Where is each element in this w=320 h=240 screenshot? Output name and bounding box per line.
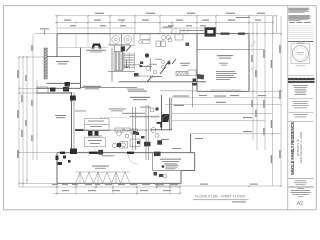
left closet box xyxy=(37,87,48,93)
dimension text blobs bottom xyxy=(52,184,258,192)
garage label xyxy=(217,55,233,56)
dark corner wall xyxy=(157,122,163,128)
mid-left double wall xyxy=(71,92,73,154)
fireplace xyxy=(205,27,216,36)
kitchen counter right fixtures xyxy=(139,41,142,44)
bottom dimension lines xyxy=(53,186,180,188)
closet box 2 xyxy=(85,138,106,147)
hall wall upper xyxy=(37,87,81,89)
signature segments row xyxy=(289,21,311,24)
foyer east wall xyxy=(191,82,193,107)
powder fixtures small xyxy=(168,62,171,65)
appliance circle right xyxy=(124,36,132,44)
firm address lines xyxy=(293,85,308,95)
garage top wall windows xyxy=(221,33,245,35)
garage door swing arcs xyxy=(249,41,256,75)
kitchen divider xyxy=(87,34,89,48)
door swing arcs xyxy=(64,28,177,153)
appliance circle left xyxy=(112,36,120,44)
svg-text:A2: A2 xyxy=(297,201,304,207)
separator above project title xyxy=(288,121,313,123)
dimension text blobs top xyxy=(64,13,265,27)
dimension text blobs right (rotated) xyxy=(251,45,280,163)
consultant text xyxy=(292,101,309,108)
wall line label xyxy=(127,89,144,90)
hall fixtures upper xyxy=(150,108,154,112)
entry door fixtures bottom left xyxy=(56,156,71,166)
garage bottom wall xyxy=(197,90,249,92)
master bottom wall xyxy=(181,170,195,172)
porch edge line xyxy=(160,90,197,92)
toilet center xyxy=(151,127,155,133)
closet box 1 xyxy=(85,119,109,131)
top dimension line 3 segments xyxy=(57,27,135,29)
family room bottom wall xyxy=(47,82,81,84)
mid horizontal wall xyxy=(119,81,206,83)
stair door blob xyxy=(121,46,125,51)
newel dark disc xyxy=(145,53,149,57)
kitchen east wall pair xyxy=(111,48,113,82)
family room top wall xyxy=(47,56,81,58)
exterior top wall xyxy=(57,33,249,35)
stair side marks xyxy=(134,62,143,77)
separator xyxy=(288,111,313,113)
upper rear dim line xyxy=(172,97,281,99)
fixture marks cluster xyxy=(136,132,145,144)
misc right wall ticks xyxy=(161,95,266,149)
upper left wall xyxy=(56,34,58,57)
garage left wall xyxy=(196,34,198,92)
firm logo text xyxy=(288,78,315,80)
rear wall segment xyxy=(150,129,172,131)
powder room fixtures xyxy=(146,65,187,75)
interior wall pair center xyxy=(75,105,149,160)
range hood dark xyxy=(92,44,102,49)
truss zigzag in studio xyxy=(76,172,131,183)
top extension lines xyxy=(56,16,58,34)
stair bottom wall xyxy=(108,71,135,73)
right extension lines xyxy=(249,33,281,35)
hall wall horizontal xyxy=(75,129,148,131)
seal label xyxy=(297,42,305,45)
garage note paragraph xyxy=(216,70,235,73)
room labels xyxy=(55,17,250,139)
dashed wall-above line xyxy=(100,116,165,118)
kitchen sink fixtures xyxy=(168,34,189,46)
rear wall right vertical xyxy=(190,134,192,153)
note above entry xyxy=(163,27,172,28)
master bedroom box xyxy=(153,153,195,171)
kitchen labels small xyxy=(142,66,152,67)
door blobs xyxy=(50,82,169,154)
family room lower wall xyxy=(80,86,137,88)
top dimension line 1 xyxy=(55,15,277,17)
left extension lines xyxy=(19,56,47,58)
rear hall wall xyxy=(169,98,171,130)
separator above firm block xyxy=(288,74,313,76)
top-left gate mark xyxy=(40,28,49,29)
hall wall dark segment xyxy=(75,129,84,131)
drawn-by block xyxy=(294,180,307,185)
living room west wall xyxy=(161,95,163,130)
hall note xyxy=(122,113,145,114)
bath fixtures center xyxy=(115,128,140,147)
dn arrow xyxy=(124,60,128,68)
seal box xyxy=(291,44,310,64)
tick marks on dimension lines xyxy=(18,15,282,195)
master step wall xyxy=(180,171,182,184)
heavy separator above seal xyxy=(288,41,313,43)
master right wall xyxy=(194,153,196,171)
seal caption xyxy=(296,65,306,68)
arc into master xyxy=(128,155,138,165)
sheet title block xyxy=(291,188,311,196)
master bullet note xyxy=(162,165,165,168)
laundry fixture row xyxy=(112,142,127,148)
mud hall walls xyxy=(133,63,140,65)
top dimension line 2 xyxy=(55,21,273,23)
dimension text blobs left (rotated) xyxy=(17,45,32,158)
garage interior line xyxy=(197,49,249,51)
range label xyxy=(86,50,106,51)
garage door recess xyxy=(211,89,241,91)
studio label xyxy=(92,166,109,167)
sink circle center xyxy=(155,133,159,137)
studio top wall xyxy=(57,152,195,154)
stair flight xyxy=(124,53,135,70)
master bath fixtures xyxy=(154,172,164,177)
svg-text:SINGLE FAMILY RESIDENCE: SINGLE FAMILY RESIDENCE xyxy=(290,122,295,175)
living room label xyxy=(130,97,150,98)
separator below project title xyxy=(288,178,313,180)
entry stoop line xyxy=(180,29,204,31)
general notes paragraph 1 xyxy=(288,8,310,13)
studio bottom wall xyxy=(57,182,181,184)
stair top landing wall xyxy=(108,44,130,46)
kitchen sink basins xyxy=(140,34,171,40)
revision rule lines xyxy=(289,26,314,39)
title block divider xyxy=(287,6,289,210)
wing wall hatched xyxy=(44,48,47,79)
kitchen appliance boxes xyxy=(110,34,134,46)
rear door blob xyxy=(163,114,170,120)
family room right wall xyxy=(80,48,82,89)
17'-0 family room interior xyxy=(56,61,69,62)
door leaf diagonal stair xyxy=(126,46,131,52)
small text rows center xyxy=(75,107,159,157)
separator xyxy=(288,98,313,100)
general notes paragraph 2 xyxy=(288,15,311,21)
door leaf diagonals xyxy=(147,67,166,83)
svg-text:FLOOR PLAN - FIRST FLOOR: FLOOR PLAN - FIRST FLOOR xyxy=(195,195,245,199)
small note right xyxy=(195,138,203,139)
seal circle xyxy=(292,45,308,61)
dining label xyxy=(128,91,147,92)
mud room fixtures xyxy=(162,61,165,64)
garage right wall xyxy=(248,34,250,92)
hall wall lower xyxy=(37,92,72,94)
dim note right of living xyxy=(173,96,189,97)
foyer label xyxy=(180,63,190,64)
separator xyxy=(288,186,313,188)
garage note small xyxy=(219,63,228,64)
entry steps xyxy=(176,29,188,34)
pantry shelf hatch block xyxy=(114,52,123,71)
bench dark xyxy=(197,74,205,79)
right dimension lines xyxy=(252,22,254,140)
window blobs on studio wall xyxy=(60,152,134,154)
family room label xyxy=(83,86,101,87)
kitchen counter edge xyxy=(57,47,108,49)
bottom extension lines xyxy=(56,183,58,194)
left dimension lines xyxy=(18,57,20,187)
porch label xyxy=(55,115,66,116)
garage side fixtures xyxy=(193,79,197,86)
svg-text:South Palm Beach, FL 33480: South Palm Beach, FL 33480 xyxy=(300,132,303,164)
studio left wall xyxy=(56,153,58,184)
